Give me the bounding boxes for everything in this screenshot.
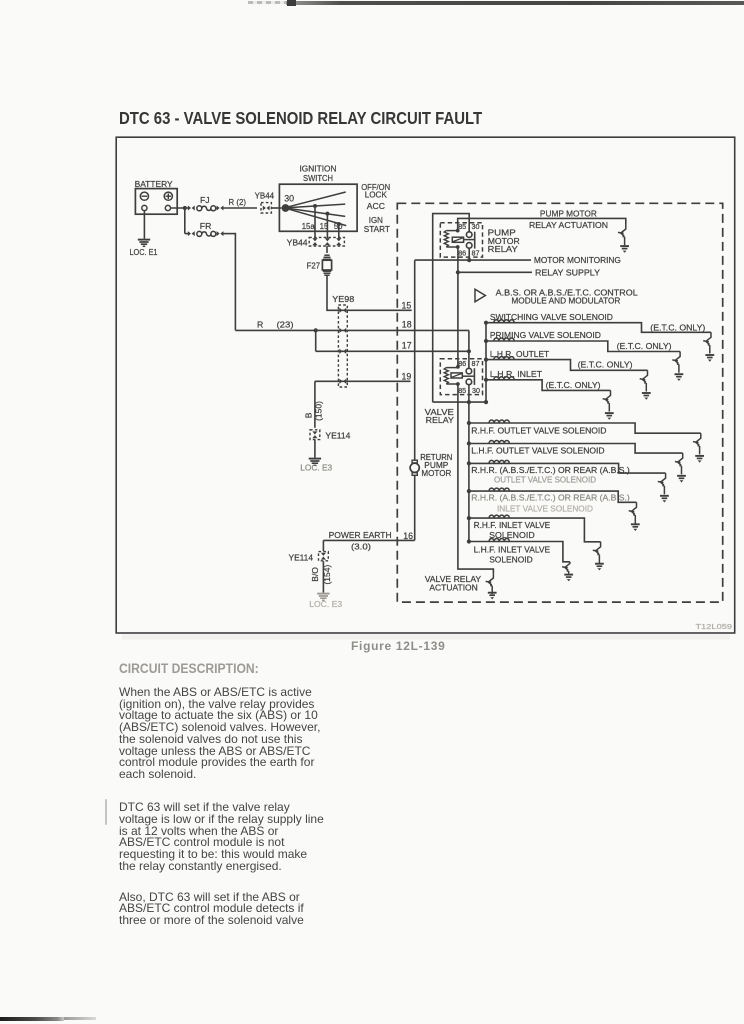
svg-text:FJ: FJ [200,195,210,205]
svg-text:T12L059: T12L059 [696,622,733,631]
svg-text:(3.0): (3.0) [351,542,371,552]
wire rhr inlet valve [469,491,637,502]
svg-text:RELAY: RELAY [426,415,455,425]
svg-text:R.H.F. OUTLET VALVE SOLENOID: R.H.F. OUTLET VALVE SOLENOID [471,425,606,435]
svg-text:YE98: YE98 [332,294,354,304]
wire monitoring down to power earth [414,260,416,540]
wire YE114 to ground [314,440,316,458]
svg-text:30: 30 [472,222,480,231]
solenoid rhf outlet valve coil [467,420,510,425]
wire motor monitoring [415,248,531,262]
svg-text:MODULE AND MODULATOR: MODULE AND MODULATOR [511,296,620,306]
wire relay supply [456,247,532,367]
svg-text:16: 16 [403,531,413,541]
wire valve relay 30 output [433,385,488,405]
svg-text:YE114: YE114 [325,431,350,441]
svg-text:SWITCHING VALVE SOLENOID: SWITCHING VALVE SOLENOID [490,312,613,322]
wire B/O (154) [310,561,332,592]
solenoid switching valve coil [484,320,514,325]
valve relay U2 [440,359,482,395]
svg-text:(E.T.C. ONLY): (E.T.C. ONLY) [650,322,705,332]
svg-text:15a: 15a [302,222,316,231]
svg-text:MOTOR: MOTOR [421,468,451,478]
solenoid rhr inlet valve coil [467,488,510,493]
solenoid lhr inlet coil [484,377,514,382]
svg-text:SOLENOID: SOLENOID [489,555,533,565]
left margin scratch [105,799,107,825]
svg-text:86: 86 [458,249,466,258]
svg-text:30: 30 [284,193,294,203]
pump motor relay U1 [440,222,482,257]
connector YE98 [332,294,354,387]
solenoid rhf inlet valve coil [467,515,510,520]
svg-text:LOCK: LOCK [365,189,387,199]
svg-text:BATTERY: BATTERY [135,179,173,189]
svg-text:RELAY ACTUATION: RELAY ACTUATION [529,220,608,230]
svg-text:R: R [257,319,263,329]
svg-text:PRIMING VALVE SOLENOID: PRIMING VALVE SOLENOID [490,330,601,340]
wire rhr outlet valve [469,463,666,473]
svg-text:F27: F27 [307,260,321,270]
svg-text:R (2): R (2) [229,197,247,207]
wire R (23) down from FR [234,233,236,331]
wire F27 to pin 15 [327,276,412,311]
svg-text:30: 30 [472,386,480,395]
ignition switch [279,164,357,232]
svg-text:(154): (154) [322,565,332,585]
svg-text:17: 17 [402,341,412,351]
ABS control module dashed box [397,203,722,602]
ground lhf outlet valve [677,476,686,479]
wire YB44 to F27 [326,246,328,253]
wire lhr outlet [486,360,648,371]
ground rhf outlet valve [695,456,704,459]
svg-text:87: 87 [472,249,480,258]
solenoid lhf inlet valve coil [467,539,510,544]
svg-text:MOTOR MONITORING: MOTOR MONITORING [534,255,621,265]
wire rhf inlet valve [469,518,601,542]
module marker triangle [475,289,485,302]
connector YE114 upper [310,430,351,441]
wire pump relay actuation [458,218,626,230]
wire YB44 to ignition switch [272,207,282,209]
connector YB44 inline [255,191,275,213]
svg-text:(E.T.C. ONLY): (E.T.C. ONLY) [578,360,633,370]
fuse FR [185,221,236,237]
svg-text:L.H.R. OUTLET: L.H.R. OUTLET [490,349,550,359]
ground switching valve [705,355,714,358]
solenoid priming valve coil [484,338,514,343]
svg-text:LOC. E1: LOC. E1 [130,247,158,257]
wire lhf inlet valve [469,542,570,562]
figure caption [351,640,446,652]
svg-text:(E.T.C. ONLY): (E.T.C. ONLY) [617,341,672,351]
svg-text:PUMP MOTOR: PUMP MOTOR [540,209,597,219]
svg-text:RELAY SUPPLY: RELAY SUPPLY [535,267,600,277]
svg-text:ACTUATION: ACTUATION [429,583,477,593]
valve relay label [425,407,454,425]
svg-text:87: 87 [472,359,480,368]
label ABS control module [496,287,638,305]
svg-text:L.H.F. OUTLET VALVE SOLENOID: L.H.F. OUTLET VALVE SOLENOID [471,445,604,455]
svg-text:LOC. E3: LOC. E3 [309,599,342,609]
circuit description heading [119,662,259,676]
wire priming valve [486,341,680,352]
transistor lhf inlet valve [562,562,570,574]
svg-text:(E.T.C. ONLY): (E.T.C. ONLY) [546,380,601,390]
ground rhr inlet valve [631,524,640,527]
svg-text:R.H.R. (A.B.S./E.T.C.) OR REAR: R.H.R. (A.B.S./E.T.C.) OR REAR (A.B.S.) [471,493,630,503]
solenoid lhr outlet coil [484,357,514,362]
wire solenoid bus lower [468,402,470,541]
switch terminal wires down [315,206,339,238]
svg-text:(150): (150) [313,401,323,421]
FR branch wire [184,208,186,234]
solenoid lhf outlet valve coil [467,440,510,445]
svg-text:SWITCH: SWITCH [303,173,333,183]
svg-text:19: 19 [402,371,412,381]
transistor valve relay actuation [486,573,494,594]
battery [135,179,178,214]
fuse F27 [307,255,332,275]
svg-text:ACC: ACC [367,201,385,211]
svg-text:FR: FR [200,221,212,231]
svg-text:START: START [364,224,391,234]
pin labels 15 18 17 19 [402,300,412,381]
transistor rhr inlet valve [629,502,637,523]
svg-text:B: B [304,412,314,418]
svg-text:L.H.F. INLET VALVE: L.H.F. INLET VALVE [474,545,551,555]
svg-text:R.H.F. INLET VALVE: R.H.F. INLET VALVE [474,520,551,530]
wire 19 B (150) [304,381,411,428]
svg-text:YE114: YE114 [289,552,314,562]
svg-text:POWER EARTH: POWER EARTH [329,530,392,540]
ground LOC. E3 lower [309,594,342,610]
wire lhr inlet [486,380,611,391]
svg-text:18: 18 [402,320,412,330]
svg-text:YB44: YB44 [287,237,308,247]
ground lhr outlet [642,393,651,396]
solenoid rhr outlet valve coil [467,460,510,465]
wire switching valve [486,323,711,333]
svg-text:RELAY: RELAY [488,244,518,254]
return pump motor M1 [410,460,419,475]
scanner dark wedge bottom left [0,1017,64,1021]
wire solenoid bus upper [485,323,487,402]
fuse FJ [188,195,257,211]
paragraph 1 [119,687,320,781]
svg-text:(23): (23) [277,319,294,329]
wire rhf outlet valve [469,423,701,433]
connector YE114 lower [289,552,329,563]
wire lhf outlet valve [469,444,683,454]
ground LOC. E1 [130,240,158,257]
svg-text:B/O: B/O [310,567,320,582]
watermark band [122,634,730,639]
label VALVE RELAY ACTUATION [425,574,482,593]
transistor lhr outlet [640,370,648,391]
transistor switching valve [703,332,711,353]
paragraph 2 [119,802,324,873]
scanner dark strip top [286,1,744,6]
paragraph 3 [119,892,304,927]
pump motor relay label [488,228,520,254]
connector YB44 strip [287,237,345,247]
ground priming valve [675,374,684,377]
battery earth wire [143,211,145,239]
svg-text:R.H.R. (A.B.S./E.T.C.) OR REAR: R.H.R. (A.B.S./E.T.C.) OR REAR (A.B.S.) [471,465,630,475]
label PUMP MOTOR RELAY ACTUATION [529,209,608,230]
transistor rhf outlet valve [693,433,701,454]
svg-text:INLET VALVE SOLENOID: INLET VALVE SOLENOID [497,503,593,513]
transistor lhf outlet valve [675,453,683,474]
wire 18-17 joint to valve relay pin 87 [468,330,470,368]
svg-text:YB44: YB44 [255,191,275,201]
wire power earth [323,530,414,551]
wire 18 R (23) [235,319,469,332]
ground valve relay actuation [488,593,497,596]
svg-text:85: 85 [458,386,466,395]
relay 30 feed wire [433,214,470,403]
title DTC 63 [119,110,482,127]
schematic frame [116,137,735,633]
ground rhr outlet valve [660,496,669,499]
svg-text:OUTLET VALVE SOLENOID: OUTLET VALVE SOLENOID [494,474,596,484]
ground lhr inlet [605,413,614,416]
wire battery to fuses [171,206,191,210]
wire valve relay 85 to actuation [458,384,494,573]
transistor pump relay actuation [618,224,626,245]
wire 17 [316,330,471,353]
transistor lhr inlet [603,390,611,411]
svg-text:LOC. E3: LOC. E3 [300,463,332,473]
svg-text:15: 15 [402,300,412,310]
ground LOC. E3 upper [300,459,332,473]
transistor rhr outlet valve [658,473,666,494]
transistor priming valve [672,352,680,373]
ignition switch position labels [361,182,390,234]
transistor rhf inlet valve [593,542,601,563]
label RETURN PUMP MOTOR [420,452,452,478]
svg-text:L.H.R. INLET: L.H.R. INLET [490,369,543,379]
ground pump relay actuation [620,246,629,249]
ground rhf inlet valve [595,564,604,567]
ground lhf inlet valve [564,575,573,578]
